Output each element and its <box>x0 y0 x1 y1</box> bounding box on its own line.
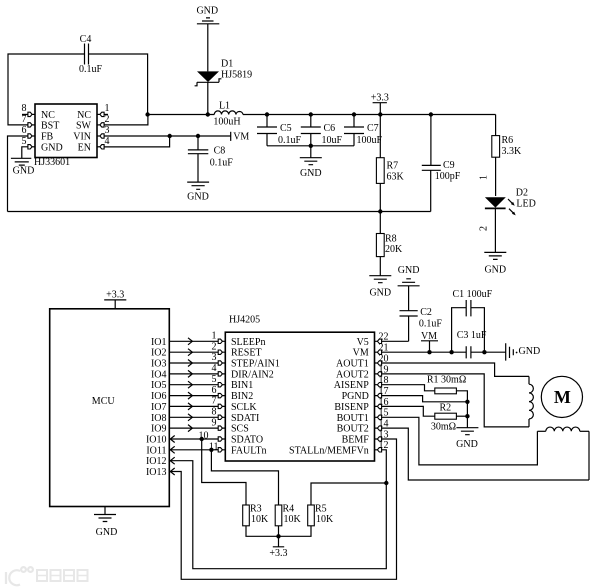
svg-text:5: 5 <box>22 136 27 147</box>
junction PGND <box>465 400 469 404</box>
svg-text:0.1uF: 0.1uF <box>210 158 234 169</box>
resistor R6 3.3K <box>492 115 522 197</box>
U2 right pin numbers <box>379 332 389 452</box>
svg-text:2: 2 <box>212 341 217 352</box>
svg-text:30mΩ: 30mΩ <box>431 422 456 433</box>
svg-text:VM: VM <box>233 131 249 142</box>
svg-text:C3 1uF: C3 1uF <box>457 330 487 341</box>
svg-text:5: 5 <box>212 374 217 385</box>
IC U2 HJ4205 body <box>225 315 374 462</box>
wire BOUT1 to coil B left <box>382 417 538 465</box>
svg-text:EN: EN <box>78 142 91 153</box>
wire IO3-STEP <box>169 362 218 364</box>
svg-text:STEP/AIN1: STEP/AIN1 <box>231 359 280 370</box>
svg-text:100pF: 100pF <box>435 171 461 182</box>
svg-text:FB: FB <box>41 132 54 143</box>
resistor R2 30mohm <box>431 403 457 433</box>
wire SW rail <box>148 114 496 116</box>
ground GND below R1/R2 <box>456 428 478 450</box>
svg-text:IO4: IO4 <box>151 369 167 380</box>
svg-text:IO3: IO3 <box>151 359 167 370</box>
svg-text:SLEEPn: SLEEPn <box>231 337 265 348</box>
svg-text:BEMF: BEMF <box>342 435 370 446</box>
svg-text:3.3K: 3.3K <box>502 146 523 157</box>
svg-text:L1: L1 <box>219 101 230 112</box>
motor M <box>541 376 582 417</box>
svg-text:+3.3: +3.3 <box>269 548 287 559</box>
wire IO7-SCLK <box>169 405 218 407</box>
U1 pin 5 <box>22 136 36 149</box>
svg-text:SCS: SCS <box>231 424 249 435</box>
svg-text:C6: C6 <box>324 123 336 134</box>
capacitor C5 <box>257 115 302 147</box>
svg-text:63K: 63K <box>387 172 405 183</box>
svg-text:VM: VM <box>353 348 369 359</box>
svg-text:HJ5819: HJ5819 <box>221 70 252 81</box>
inductor L1 100uH <box>213 101 243 128</box>
svg-text:100uH: 100uH <box>213 117 240 128</box>
wire IO5-BIN1 <box>169 384 218 386</box>
svg-text:VIN: VIN <box>73 132 91 143</box>
U2 left pin arrows 1-11 <box>218 339 225 452</box>
junction R4 bottom <box>276 534 280 538</box>
junction SDATO pullup <box>200 437 204 441</box>
svg-text:SW: SW <box>76 121 92 132</box>
svg-text:GND: GND <box>196 6 218 17</box>
wire SW pin2 jog <box>104 115 148 125</box>
ground GND above D1 (inverted) <box>196 6 219 72</box>
ground GND below C8 <box>187 182 209 202</box>
svg-text:4: 4 <box>105 136 110 147</box>
wire IO9-SCS <box>169 427 218 429</box>
svg-text:GND: GND <box>300 168 322 179</box>
wire R3-R4-R5 bottoms <box>246 526 311 537</box>
svg-text:R5: R5 <box>315 504 327 515</box>
svg-text:10K: 10K <box>316 514 334 525</box>
svg-text:BOUT1: BOUT1 <box>337 413 369 424</box>
wire BOUT2 to coil B right <box>382 428 589 480</box>
wire VM row <box>382 351 506 353</box>
ground GND below D2 <box>484 252 506 275</box>
wire C5-C6-C7 bottoms <box>267 145 354 147</box>
wire R1 right to GND rail <box>456 391 467 428</box>
svg-text:8: 8 <box>212 407 217 418</box>
svg-text:GND: GND <box>456 439 478 450</box>
junction C7/rail <box>352 112 356 116</box>
svg-text:C8: C8 <box>214 146 226 157</box>
svg-text:2: 2 <box>479 226 490 231</box>
svg-text:GND: GND <box>369 288 391 299</box>
U1 pin 4 <box>97 136 110 149</box>
junction C6/rail <box>309 112 313 116</box>
wire IO4-DIR <box>169 373 218 375</box>
capacitor C3 1uF <box>457 330 487 358</box>
arrow into IO12 <box>170 457 174 464</box>
IC U1 HJ33601 body <box>34 104 97 168</box>
U1 pin 3 <box>97 125 110 138</box>
arrow into IO13 <box>170 468 174 475</box>
junction C8/VIN <box>196 134 200 138</box>
svg-text:10K: 10K <box>284 514 302 525</box>
capacitor C4 <box>79 34 103 75</box>
ground GND below C6 <box>300 146 322 179</box>
junction STALLn/R5 <box>384 481 388 485</box>
svg-text:7: 7 <box>212 396 217 407</box>
wire R5 to STALLn node <box>311 483 386 505</box>
svg-text:SDATO: SDATO <box>231 435 263 446</box>
wire coil B right down <box>588 431 590 480</box>
resistor R4 10K <box>275 504 301 526</box>
junction +3.3/R7 <box>378 112 382 116</box>
svg-text:0.1uF: 0.1uF <box>79 64 103 75</box>
svg-text:IO5: IO5 <box>151 380 167 391</box>
svg-text:IO1: IO1 <box>151 337 167 348</box>
junction C1 left <box>449 350 453 354</box>
svg-text:0.1uF: 0.1uF <box>278 135 302 146</box>
wire V5 to C2 <box>382 340 409 342</box>
svg-text:C2: C2 <box>420 307 432 318</box>
resistor R1 30mohm <box>427 375 466 394</box>
svg-text:V5: V5 <box>357 337 369 348</box>
wire C4 right down to SW rail <box>89 54 148 115</box>
svg-text:6: 6 <box>212 385 217 396</box>
svg-text:R4: R4 <box>283 504 295 515</box>
junction R2 right <box>465 414 469 418</box>
svg-text:AOUT1: AOUT1 <box>336 359 369 370</box>
ground GND at U1 pin5 <box>11 147 34 177</box>
power +3.3 on rail <box>371 93 389 115</box>
junction VM tag <box>427 350 431 354</box>
svg-text:IO6: IO6 <box>151 391 167 402</box>
resistor R7 63K <box>376 115 404 212</box>
svg-text:IO8: IO8 <box>151 413 167 424</box>
svg-text:NC: NC <box>41 110 55 121</box>
wire IO10-SDATO <box>169 438 218 440</box>
svg-text:C5: C5 <box>280 123 292 134</box>
svg-text:IO13: IO13 <box>146 467 167 478</box>
svg-text:AOUT2: AOUT2 <box>336 369 369 380</box>
wire IO6-BIN2 <box>169 395 218 397</box>
capacitor C8 <box>188 136 233 182</box>
svg-text:1: 1 <box>212 331 217 342</box>
svg-text:4: 4 <box>212 363 217 374</box>
wire IO11-FAULTn <box>169 449 218 451</box>
svg-text:RESET: RESET <box>231 348 262 359</box>
junction C5/rail <box>265 112 269 116</box>
wire IO13 loop to BEMF <box>169 439 396 579</box>
svg-text:3: 3 <box>105 125 110 136</box>
svg-text:1: 1 <box>105 103 110 114</box>
MCU pin labels IO1-IO13 <box>146 337 167 478</box>
svg-text:GND: GND <box>519 346 541 357</box>
wire BISENP to R2 <box>382 406 435 416</box>
watermark logo <box>6 567 33 585</box>
svg-text:BIN1: BIN1 <box>231 380 253 391</box>
wire IO2-RESET <box>169 351 218 353</box>
svg-text:8: 8 <box>22 103 27 114</box>
svg-text:R7: R7 <box>387 161 399 172</box>
svg-text:LED: LED <box>516 199 535 210</box>
wire PGND jog <box>382 396 468 402</box>
wire EN jog to VIN <box>104 136 170 147</box>
svg-text:GND: GND <box>398 265 420 276</box>
wire IO1-SLEEPn <box>169 340 218 342</box>
svg-text:9: 9 <box>212 417 217 428</box>
svg-text:IO2: IO2 <box>151 348 167 359</box>
inductor coil A <box>529 376 533 427</box>
LED D2 <box>485 188 536 253</box>
svg-text:DIR/AIN2: DIR/AIN2 <box>231 369 274 380</box>
svg-text:STALLn/MEMFVn: STALLn/MEMFVn <box>289 445 369 456</box>
svg-text:D2: D2 <box>516 188 528 199</box>
inductor coil B <box>537 427 589 431</box>
watermark characters <box>37 570 88 581</box>
diode D1 HJ5819 <box>195 59 253 115</box>
arrow into IO10 <box>170 436 174 443</box>
svg-text:IO9: IO9 <box>151 424 167 435</box>
wire AISENP to R1 <box>382 385 435 391</box>
wire FAULTn to R4 <box>211 450 278 505</box>
junction FB node <box>378 209 382 213</box>
svg-text:10K: 10K <box>251 514 269 525</box>
ground GND above C2 (inverted) <box>398 265 420 286</box>
junction FAULTn pullup <box>209 448 213 452</box>
svg-text:SCLK: SCLK <box>231 402 257 413</box>
svg-text:AISENP: AISENP <box>334 380 369 391</box>
svg-text:BOUT2: BOUT2 <box>337 424 369 435</box>
U1 pin 7 <box>22 114 36 127</box>
junction C1 right <box>482 350 486 354</box>
capacitor C2 0.1uF <box>400 286 443 342</box>
ground GND right of C3 (rotated) <box>506 343 540 360</box>
svg-text:PGND: PGND <box>342 391 369 402</box>
svg-text:GND: GND <box>13 166 35 177</box>
svg-text:NC: NC <box>77 110 91 121</box>
svg-text:IO7: IO7 <box>151 402 167 413</box>
junction C9/rail <box>429 112 433 116</box>
power +3.3 below resistors <box>269 536 287 559</box>
svg-text:3: 3 <box>212 352 217 363</box>
svg-text:+3.3: +3.3 <box>371 93 389 104</box>
svg-text:IO12: IO12 <box>146 456 167 467</box>
svg-text:C7: C7 <box>367 123 379 134</box>
junction EN/VIN <box>168 134 172 138</box>
svg-text:IO11: IO11 <box>146 445 166 456</box>
svg-text:M: M <box>554 387 571 407</box>
svg-text:GND: GND <box>484 265 506 276</box>
svg-text:IO10: IO10 <box>146 435 167 446</box>
wire SDATO to R3 <box>202 439 246 505</box>
wire C4 left to BST <box>8 54 85 125</box>
svg-text:GND: GND <box>187 192 209 203</box>
net label VM <box>231 131 250 142</box>
wire IO12 loop to STALLn <box>169 450 386 569</box>
arrow into IO11 <box>170 446 174 453</box>
svg-text:R2: R2 <box>440 403 452 414</box>
wire R2 right to GND rail <box>456 415 467 417</box>
U1 pin 1 <box>97 103 110 117</box>
arrows on wires IO1-IO9 <box>188 338 192 432</box>
svg-text:BIN2: BIN2 <box>231 391 253 402</box>
svg-text:100uF: 100uF <box>357 135 383 146</box>
svg-text:+3.3: +3.3 <box>106 290 124 301</box>
IC MCU body <box>50 309 170 507</box>
U1 pin 6 <box>22 125 36 138</box>
svg-text:20K: 20K <box>385 244 403 255</box>
junction SW node <box>145 112 149 116</box>
resistor R3 10K <box>243 504 269 526</box>
svg-text:GND: GND <box>96 527 118 538</box>
svg-text:HJ4205: HJ4205 <box>229 315 260 326</box>
svg-text:1: 1 <box>479 175 490 180</box>
resistor R5 10K <box>308 504 334 526</box>
svg-text:6: 6 <box>22 125 27 136</box>
wire AOUT1 to coil A top <box>382 363 529 376</box>
capacitor C7 <box>344 115 383 147</box>
svg-text:R3: R3 <box>250 504 262 515</box>
svg-text:D1: D1 <box>221 59 233 70</box>
U1 pin 2 <box>97 114 110 127</box>
svg-text:SDATI: SDATI <box>231 413 259 424</box>
ground GND below R8 <box>369 276 391 299</box>
capacitor C9 100pF <box>422 115 461 212</box>
svg-text:C9: C9 <box>443 160 455 171</box>
capacitor C6 <box>301 115 343 147</box>
resistor R8 20K <box>376 212 403 276</box>
svg-text:2: 2 <box>105 114 110 125</box>
U2 right pin arrows 22-12 <box>375 339 382 452</box>
svg-text:BISENP: BISENP <box>334 402 369 413</box>
svg-text:R1 30mΩ: R1 30mΩ <box>427 375 466 386</box>
power +3.3 above MCU <box>104 290 126 309</box>
svg-text:C1 100uF: C1 100uF <box>453 289 493 300</box>
junction C6 bottom <box>309 144 313 148</box>
wire IO8-SDATI <box>169 416 218 418</box>
wire AOUT2 to coil A bottom <box>382 374 529 427</box>
U1 pin 8 <box>22 103 36 117</box>
svg-text:7: 7 <box>22 114 27 125</box>
wire FB left vertical <box>8 136 28 212</box>
svg-text:R8: R8 <box>385 234 397 245</box>
svg-text:C4: C4 <box>80 34 92 45</box>
wire VIN to VM <box>104 135 231 137</box>
svg-text:BST: BST <box>41 121 59 132</box>
svg-text:0.1uF: 0.1uF <box>419 319 443 330</box>
U2 left pin numbers <box>199 331 219 453</box>
wire FB feedback bottom <box>8 211 431 213</box>
svg-text:FAULTn: FAULTn <box>231 445 267 456</box>
ground GND below MCU <box>94 507 117 539</box>
svg-text:GND: GND <box>41 142 63 153</box>
svg-text:MCU: MCU <box>92 396 116 407</box>
capacitor C1 100uF <box>452 289 493 352</box>
net label VM at U2 <box>421 331 438 352</box>
svg-text:10uF: 10uF <box>322 135 343 146</box>
junction D1 / rail <box>206 112 210 116</box>
svg-text:R6: R6 <box>502 135 514 146</box>
svg-text:HJ33601: HJ33601 <box>34 157 70 168</box>
